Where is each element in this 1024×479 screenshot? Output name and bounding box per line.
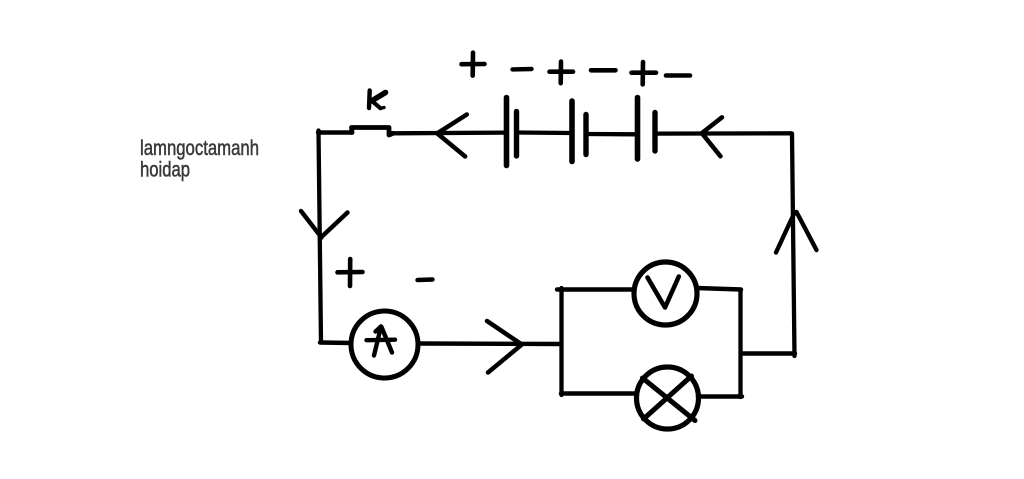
polarity label + of cell 1 xyxy=(462,53,485,76)
voltmeter U2 circle xyxy=(634,262,697,325)
svg-text:hoidap: hoidap xyxy=(140,158,190,182)
battery cell 3 negative plate (short) xyxy=(652,113,657,152)
polarity label - near ammeter xyxy=(418,277,433,282)
current arrow (up) on right wire xyxy=(776,212,817,253)
ammeter letter A xyxy=(367,327,396,356)
polarity label + of cell 3 xyxy=(632,62,657,84)
ammeter U1 circle xyxy=(351,311,418,378)
switch K contact (raised closed-switch segment) xyxy=(352,128,394,136)
lamp cross stroke 2 xyxy=(644,376,692,419)
label K for switch xyxy=(369,91,386,109)
node: parallel section right vertical wire xyxy=(738,290,742,398)
lamp cross stroke 1 xyxy=(643,378,696,421)
wire: top branch right segment from voltmeter xyxy=(697,288,742,290)
wire: top side from top-left corner to switch xyxy=(318,130,352,134)
battery cell 3 positive plate (long) xyxy=(635,98,641,160)
polarity label - of cell 2 xyxy=(591,68,616,73)
battery cell 1 negative plate (short) xyxy=(514,112,519,157)
battery cell 2 positive plate (long) xyxy=(569,101,575,162)
wire: from battery cell 3 to top-right corner xyxy=(655,131,791,136)
polarity label - of cell 3 xyxy=(666,73,690,78)
wire: between battery cell 2 and cell 3 xyxy=(586,132,636,137)
wire: bottom branch right segment from lamp xyxy=(698,394,742,398)
polarity label + near ammeter xyxy=(338,259,363,286)
current arrow (left) on top wire before battery xyxy=(438,115,467,157)
svg-text:lamngoctamanh: lamngoctamanh xyxy=(140,136,259,160)
current arrow (right) on middle wire xyxy=(487,321,522,373)
current arrow (left) on top wire after battery xyxy=(702,117,722,156)
voltmeter letter V xyxy=(648,277,679,308)
wire: from ammeter to parallel section xyxy=(418,341,561,346)
polarity label + of cell 2 xyxy=(550,62,574,84)
current arrow (down) on left wire xyxy=(301,211,348,238)
wire: top side from switch to battery cell 1 xyxy=(391,130,505,135)
battery cell 2 negative plate (short) xyxy=(583,115,588,155)
battery cell 1 positive plate (long) xyxy=(504,98,510,166)
wire: top branch left segment to voltmeter xyxy=(557,287,635,291)
wire: right side vertical xyxy=(792,134,795,357)
wire: between battery cell 1 and cell 2 xyxy=(517,130,571,135)
node: parallel section left vertical wire xyxy=(559,288,563,395)
wire: left side vertical xyxy=(319,131,322,343)
wire: bottom branch left segment to lamp xyxy=(561,391,640,395)
lamp L1 circle xyxy=(637,367,699,429)
wire: connector from parallel section to right vertical xyxy=(741,351,795,355)
polarity label - of cell 1 xyxy=(513,67,532,72)
wire: bottom-left from corner to ammeter xyxy=(320,340,352,345)
